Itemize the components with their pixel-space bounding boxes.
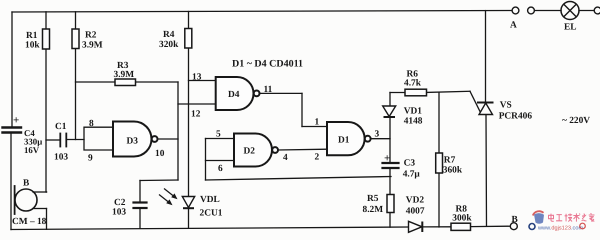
svg-text:EL: EL xyxy=(564,23,577,33)
svg-text:D3: D3 xyxy=(127,137,139,147)
svg-text:A: A xyxy=(510,21,517,31)
svg-text:16V: 16V xyxy=(24,145,40,155)
svg-text:320k: 320k xyxy=(159,40,179,50)
svg-text:4.7μ: 4.7μ xyxy=(403,170,421,180)
svg-text:B: B xyxy=(23,179,29,189)
svg-text:R1: R1 xyxy=(26,31,38,41)
svg-text:~ 220V: ~ 220V xyxy=(562,116,590,126)
svg-text:5: 5 xyxy=(216,130,221,140)
svg-text:D1 ~ D4 CD4011: D1 ~ D4 CD4011 xyxy=(232,59,303,70)
svg-text:2CU1: 2CU1 xyxy=(200,209,223,219)
svg-text:12: 12 xyxy=(191,110,201,120)
svg-text:R4: R4 xyxy=(163,30,175,40)
svg-text:C3: C3 xyxy=(404,159,416,169)
svg-text:VD2: VD2 xyxy=(406,196,425,206)
svg-text:CM – 18: CM – 18 xyxy=(12,217,47,227)
svg-text:VDL: VDL xyxy=(200,195,220,205)
svg-text:4148: 4148 xyxy=(404,117,423,127)
svg-text:10k: 10k xyxy=(25,41,40,51)
svg-text:R2: R2 xyxy=(85,31,97,41)
svg-text:D4: D4 xyxy=(228,90,240,100)
svg-text:PCR406: PCR406 xyxy=(499,112,533,122)
svg-text:D2: D2 xyxy=(244,147,256,157)
svg-text:360k: 360k xyxy=(443,166,463,176)
svg-text:R5: R5 xyxy=(367,194,379,204)
svg-text:R7: R7 xyxy=(444,156,456,166)
svg-text:+: + xyxy=(384,153,390,165)
svg-text:11: 11 xyxy=(264,85,273,95)
svg-text:300k: 300k xyxy=(452,214,472,224)
svg-text:C2: C2 xyxy=(114,198,126,208)
svg-text:2: 2 xyxy=(315,153,320,163)
svg-text:10: 10 xyxy=(155,149,165,159)
svg-text:www.dgjs123.com: www.dgjs123.com xyxy=(537,224,583,231)
svg-text:D1: D1 xyxy=(338,136,350,146)
svg-text:4007: 4007 xyxy=(406,207,425,217)
svg-text:C1: C1 xyxy=(55,122,67,132)
svg-text:8: 8 xyxy=(89,119,94,129)
svg-text:VD1: VD1 xyxy=(404,107,423,117)
svg-text:103: 103 xyxy=(112,208,126,218)
svg-text:9: 9 xyxy=(88,154,93,164)
svg-text:+: + xyxy=(13,115,19,127)
svg-text:B: B xyxy=(512,215,518,225)
svg-text:VS: VS xyxy=(500,101,512,111)
svg-text:3: 3 xyxy=(375,130,380,140)
svg-text:1: 1 xyxy=(315,118,320,128)
svg-text:3.9M: 3.9M xyxy=(114,70,135,80)
svg-text:6: 6 xyxy=(218,164,223,174)
svg-text:13: 13 xyxy=(192,73,202,83)
svg-text:8.2M: 8.2M xyxy=(363,205,384,215)
svg-text:4.7k: 4.7k xyxy=(404,79,422,89)
svg-text:3.9M: 3.9M xyxy=(82,41,103,51)
svg-text:4: 4 xyxy=(283,153,288,163)
svg-text:103: 103 xyxy=(54,153,68,163)
